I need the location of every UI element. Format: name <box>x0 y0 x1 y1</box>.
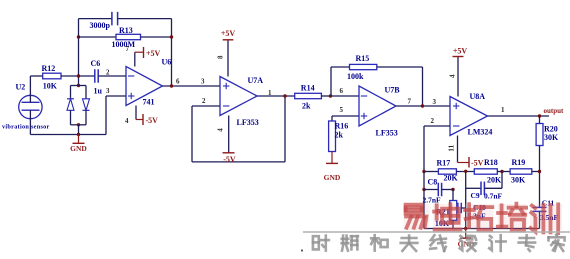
svg-text:R18: R18 <box>484 158 498 167</box>
power -5V U7A <box>223 116 236 165</box>
svg-text:4: 4 <box>125 117 129 125</box>
diode D2 <box>83 86 90 125</box>
label 741 <box>143 98 155 107</box>
junction U7B out <box>421 104 424 107</box>
ground GND3 <box>458 229 475 249</box>
feedback right vertical <box>171 19 173 86</box>
svg-text:-5V: -5V <box>471 159 484 168</box>
svg-text:R16: R16 <box>335 122 349 131</box>
label U7B <box>385 86 401 95</box>
svg-text:LM324: LM324 <box>468 128 493 137</box>
pin 1 U8A <box>501 106 505 114</box>
svg-text:2: 2 <box>202 97 206 105</box>
power -5V U8A <box>458 136 484 168</box>
wire R12-C6 <box>61 75 95 77</box>
svg-text:LF353: LF353 <box>237 118 259 127</box>
label 30K R19 <box>511 176 526 185</box>
pin 4 U6 <box>125 117 129 125</box>
svg-text:30K: 30K <box>544 133 559 142</box>
svg-text:5: 5 <box>340 106 344 114</box>
svg-text:741: 741 <box>143 98 155 107</box>
svg-text:U2: U2 <box>16 83 26 92</box>
svg-text:U7A: U7A <box>248 76 264 85</box>
svg-text:3: 3 <box>201 78 205 86</box>
label LM324 <box>468 128 493 137</box>
svg-text:7: 7 <box>408 98 412 106</box>
label U8A <box>470 92 486 101</box>
svg-text:C6: C6 <box>91 59 101 68</box>
wire U7B out <box>396 105 450 107</box>
junction mid1 <box>464 170 467 173</box>
ground GND1 <box>70 135 87 154</box>
svg-text:U8A: U8A <box>470 92 486 101</box>
wire pin2 U8A <box>424 126 450 172</box>
op-amp U7B <box>359 86 396 126</box>
label 30K R20 <box>544 133 559 142</box>
junction A top <box>77 35 80 38</box>
svg-text:1: 1 <box>501 106 505 114</box>
label R15 <box>356 54 370 63</box>
label 3.5nF <box>540 213 559 222</box>
junction C8 right <box>451 188 454 191</box>
svg-text:11: 11 <box>446 144 455 151</box>
svg-text:1: 1 <box>268 89 272 97</box>
resistor R20 <box>536 116 543 172</box>
svg-text:1000M: 1000M <box>112 40 136 49</box>
label 10K R12 <box>43 81 58 90</box>
ground rail left <box>30 134 106 136</box>
svg-text:0.7nF: 0.7nF <box>484 192 503 201</box>
svg-text:GND: GND <box>70 144 87 153</box>
pin 4 U8A <box>449 74 457 78</box>
wire R15 right <box>377 67 423 106</box>
svg-text:4: 4 <box>217 128 225 132</box>
pin 2 U7A <box>202 97 206 105</box>
power +5V U8A <box>453 47 468 97</box>
svg-text:8: 8 <box>216 55 224 59</box>
power +5V U7A <box>221 29 236 77</box>
resistor R17 <box>438 169 456 174</box>
svg-text:6: 6 <box>176 78 180 86</box>
junction gnd rail <box>77 133 80 136</box>
svg-text:R17: R17 <box>437 159 451 168</box>
resistor R21 <box>450 190 457 229</box>
pin 11 U8A <box>446 144 455 151</box>
svg-text:3: 3 <box>433 98 437 106</box>
pin 3 U7A <box>201 78 205 86</box>
svg-text:6: 6 <box>340 87 344 95</box>
svg-text:-5V: -5V <box>146 116 159 125</box>
junction U7A out <box>283 94 286 97</box>
label 1000M <box>112 40 136 49</box>
capacitor C6 <box>95 69 126 83</box>
svg-text:2k: 2k <box>335 131 344 140</box>
label R19 <box>512 158 526 167</box>
label LF353 U7A <box>237 118 259 127</box>
power -5V U6 <box>136 106 158 126</box>
label R21 <box>436 208 450 217</box>
wire R17-R18 <box>456 171 474 173</box>
label C11 <box>542 199 555 208</box>
resistor R13 <box>116 34 141 39</box>
resistor R15 <box>350 64 377 69</box>
diode D1 <box>67 86 74 125</box>
svg-text:+5V: +5V <box>146 49 161 58</box>
label 0.7nF <box>484 192 503 201</box>
capacitor 3000p <box>79 12 172 26</box>
sensor U2 <box>19 76 42 135</box>
svg-text:3000p: 3000p <box>90 21 111 30</box>
wire pin5 U7B <box>332 116 359 121</box>
wire R13 right <box>141 36 172 38</box>
wire U6 out <box>163 85 221 87</box>
label 2k R14 <box>302 101 311 110</box>
junction U8A out <box>538 114 541 117</box>
ground GND2 <box>324 152 341 183</box>
label C10 <box>473 203 486 212</box>
junction A mid <box>77 74 80 77</box>
label U6 <box>162 58 172 67</box>
wire pin2 U7A <box>192 105 220 107</box>
svg-text:GND: GND <box>324 173 341 182</box>
label 3000p <box>90 21 111 30</box>
wire diode-gnd rail <box>78 125 80 135</box>
resistor R18 <box>474 169 497 174</box>
label LF353 U7B <box>376 129 398 138</box>
svg-text:20K: 20K <box>487 176 502 185</box>
junction R19 right <box>538 170 541 173</box>
label 1u <box>94 87 103 96</box>
wire R14-U7B <box>321 95 359 97</box>
label U2 <box>16 83 26 92</box>
label R17 <box>437 159 451 168</box>
svg-text:vibration sensor: vibration sensor <box>2 124 50 131</box>
svg-text:7: 7 <box>126 45 130 53</box>
svg-text:+5V: +5V <box>221 29 236 38</box>
svg-text:1u: 1u <box>94 87 103 96</box>
label R18 <box>484 158 498 167</box>
label vibration sensor <box>2 124 50 131</box>
label C6 <box>91 59 101 68</box>
pin 6 U7B <box>340 87 344 95</box>
pin 7 U7B <box>408 98 412 106</box>
svg-text:R15: R15 <box>356 54 370 63</box>
pin 6 U6 <box>176 78 180 86</box>
label 100k <box>347 72 364 81</box>
svg-text:2.7nF: 2.7nF <box>423 195 442 204</box>
wire U2-R12 <box>30 75 42 77</box>
op-amp U8A <box>450 97 488 136</box>
svg-text:20K: 20K <box>444 173 459 182</box>
wire R13 left <box>79 36 117 38</box>
resistor R12 <box>43 73 61 79</box>
junction fb right <box>170 35 173 38</box>
capacitor C9 <box>466 172 502 196</box>
pin 5 U7B <box>340 106 344 114</box>
pin 8 U7A <box>216 55 224 59</box>
svg-text:2k: 2k <box>302 101 311 110</box>
svg-text:3: 3 <box>106 87 110 95</box>
label R14 <box>301 84 315 93</box>
junction C8 left <box>422 188 425 191</box>
resistor R16 <box>329 121 336 152</box>
svg-text:R13: R13 <box>119 26 133 35</box>
svg-text:R12: R12 <box>42 64 56 73</box>
watermark gray text <box>303 232 570 251</box>
ground rail bottom <box>424 228 540 230</box>
label 20K R18 <box>487 176 502 185</box>
capacitor C10 <box>456 203 466 214</box>
svg-text:+5V: +5V <box>453 47 468 56</box>
svg-text:LF353: LF353 <box>376 129 398 138</box>
pin 7 U6 <box>126 45 130 53</box>
label 2k R16 <box>335 131 344 140</box>
diode box bottom wire <box>71 124 87 126</box>
svg-text:100k: 100k <box>347 72 364 81</box>
diode box top wire <box>71 85 87 87</box>
capacitor C11 <box>533 172 547 229</box>
svg-text:R14: R14 <box>301 84 315 93</box>
label 10K R21 <box>435 219 450 228</box>
svg-text:R19: R19 <box>512 158 526 167</box>
svg-text:C8: C8 <box>428 178 438 187</box>
resistor R19 <box>510 169 532 174</box>
capacitor C8 <box>424 183 453 197</box>
label R13 <box>119 26 133 35</box>
label 20K R17 <box>444 173 459 182</box>
svg-text:30K: 30K <box>511 176 526 185</box>
op-amp U6 741 <box>126 67 163 106</box>
label R16 <box>335 122 349 131</box>
pin 4 U7A <box>217 128 225 132</box>
watermark red logo <box>404 204 563 234</box>
wire R19-R20 <box>532 171 540 173</box>
label C9 <box>471 191 480 200</box>
label R20 <box>544 125 558 134</box>
label 2.7nF <box>423 195 442 204</box>
svg-text:U7B: U7B <box>385 86 401 95</box>
junction R14 out <box>329 94 332 97</box>
svg-text:2: 2 <box>431 117 435 125</box>
junction U6 out <box>170 84 173 87</box>
svg-text:C9: C9 <box>471 191 480 200</box>
svg-text:10K: 10K <box>43 81 58 90</box>
svg-text:2: 2 <box>106 69 110 77</box>
wire pin3 vertical <box>106 96 126 135</box>
svg-text:output: output <box>544 107 565 115</box>
feedback R15 left vertical <box>331 67 350 96</box>
wire mid1 down <box>465 172 467 229</box>
wire rail-R17 <box>424 171 438 173</box>
op-amp U7A <box>220 77 257 116</box>
junction GND3 <box>464 227 467 230</box>
pin 1 U7A <box>268 89 272 97</box>
wire U7A out <box>257 95 295 97</box>
label U7A <box>248 76 264 85</box>
power +5V U6 <box>135 47 161 67</box>
pin 2 U8A <box>431 117 435 125</box>
junction A diodes <box>77 84 80 87</box>
wire R18-R19 <box>497 171 510 173</box>
resistor R14 <box>295 93 322 98</box>
pin 3 U8A <box>433 98 437 106</box>
port output <box>544 107 565 115</box>
junction pin2 rail <box>422 170 425 173</box>
pin 3 U6 <box>106 87 110 95</box>
svg-text:-5V: -5V <box>223 155 236 164</box>
stray dot <box>301 249 303 251</box>
label 5.3nF <box>468 212 487 221</box>
label C8 <box>428 178 438 187</box>
junction diode bottom <box>77 123 80 126</box>
label R12 <box>42 64 56 73</box>
node A vertical <box>78 19 80 86</box>
wire left rail down <box>423 172 425 229</box>
pin 2 U6 <box>106 69 110 77</box>
wire U8A out <box>488 115 550 117</box>
svg-text:U6: U6 <box>162 58 172 67</box>
junction mid2 <box>500 170 503 173</box>
svg-text:4: 4 <box>449 74 457 78</box>
feedback loop U7A <box>192 96 285 162</box>
